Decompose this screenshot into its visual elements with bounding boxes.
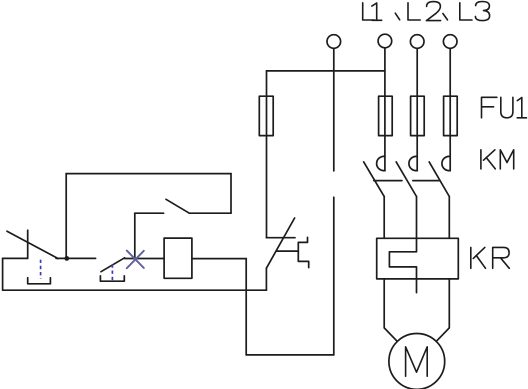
wire: coil return drop bbox=[245, 259, 247, 355]
terminal circle L3 bbox=[443, 35, 457, 49]
motor letter M bbox=[406, 347, 428, 376]
fuse FU1 pole 3 bbox=[444, 96, 458, 135]
wire: phase L2 drop bbox=[416, 49, 418, 171]
wire: seal-in loop right drop bbox=[230, 174, 232, 214]
wire: left return rail bbox=[3, 258, 267, 290]
net label L2 bbox=[408, 2, 448, 21]
net label L1 bbox=[363, 3, 400, 21]
junction node A (dot) bbox=[64, 256, 69, 261]
wire: KR to motor, phase 1 bbox=[384, 279, 397, 341]
KR heater element detour bbox=[389, 238, 416, 292]
wire: coil return bottom rail bbox=[246, 354, 334, 356]
SB1 actuator dashed link bbox=[40, 260, 42, 279]
wire: phase L1 drop bbox=[384, 48, 386, 171]
motor M (circle) bbox=[389, 334, 445, 389]
wire: phase L3 drop bbox=[449, 49, 451, 171]
fuse FU1 pole 2 bbox=[411, 96, 425, 135]
KM main contact pole 2 (arc terminal + blade) bbox=[396, 156, 417, 238]
thermal relay KR contact (NC) bbox=[266, 218, 308, 268]
stop pushbutton SB1 (NC) bbox=[3, 230, 59, 258]
wire: control feed from L1 terminal to control fuse bbox=[267, 70, 385, 72]
KM main contact pole 1 (arc terminal + blade) bbox=[364, 156, 385, 238]
fuse FU2 (control circuit) bbox=[259, 96, 273, 135]
label KM bbox=[481, 150, 514, 169]
SB1 button cap bbox=[28, 278, 51, 284]
wire: control return column (terminal to contact gap) bbox=[333, 48, 335, 170]
label FU1 bbox=[482, 97, 527, 118]
node marker (blue cross) at seal-in junction bbox=[127, 251, 144, 269]
terminal circle L2 bbox=[410, 35, 424, 49]
fuse FU1 pole 1 bbox=[379, 96, 393, 135]
wire: SB1 to node A bbox=[56, 257, 96, 259]
terminal circle (control return) bbox=[327, 35, 341, 49]
wire: KR to motor, phase 3 bbox=[436, 279, 449, 341]
KM auxiliary contact (seal-in, NO) bbox=[135, 199, 231, 213]
net label L3 bbox=[460, 2, 490, 21]
wire: seal-in loop left drop bbox=[65, 174, 67, 259]
SB2 actuator dashed link bbox=[111, 264, 113, 280]
coil KM bbox=[164, 238, 192, 278]
start pushbutton SB2 (NO) bbox=[101, 258, 125, 272]
wire: coil KM to return drop bbox=[192, 258, 246, 260]
KM main contact pole 3 (arc terminal + blade) bbox=[429, 156, 450, 238]
wire: seal-in loop top bbox=[66, 173, 231, 175]
terminal circle L1 bbox=[378, 34, 392, 48]
wire: rail to KR contact blade bbox=[265, 268, 267, 290]
SB2 button cap bbox=[100, 276, 124, 281]
wire: control return column (gap to bottom rail) bbox=[333, 197, 335, 355]
label KR bbox=[471, 247, 510, 268]
thermal relay KR heater box bbox=[377, 238, 459, 279]
wire: control fuse drop to KR contact bbox=[266, 71, 268, 238]
wire: SB2 to coil KM bbox=[125, 258, 165, 260]
KM linkage bar bbox=[374, 180, 439, 182]
wire: seal-in branch drop to node bbox=[134, 213, 136, 258]
